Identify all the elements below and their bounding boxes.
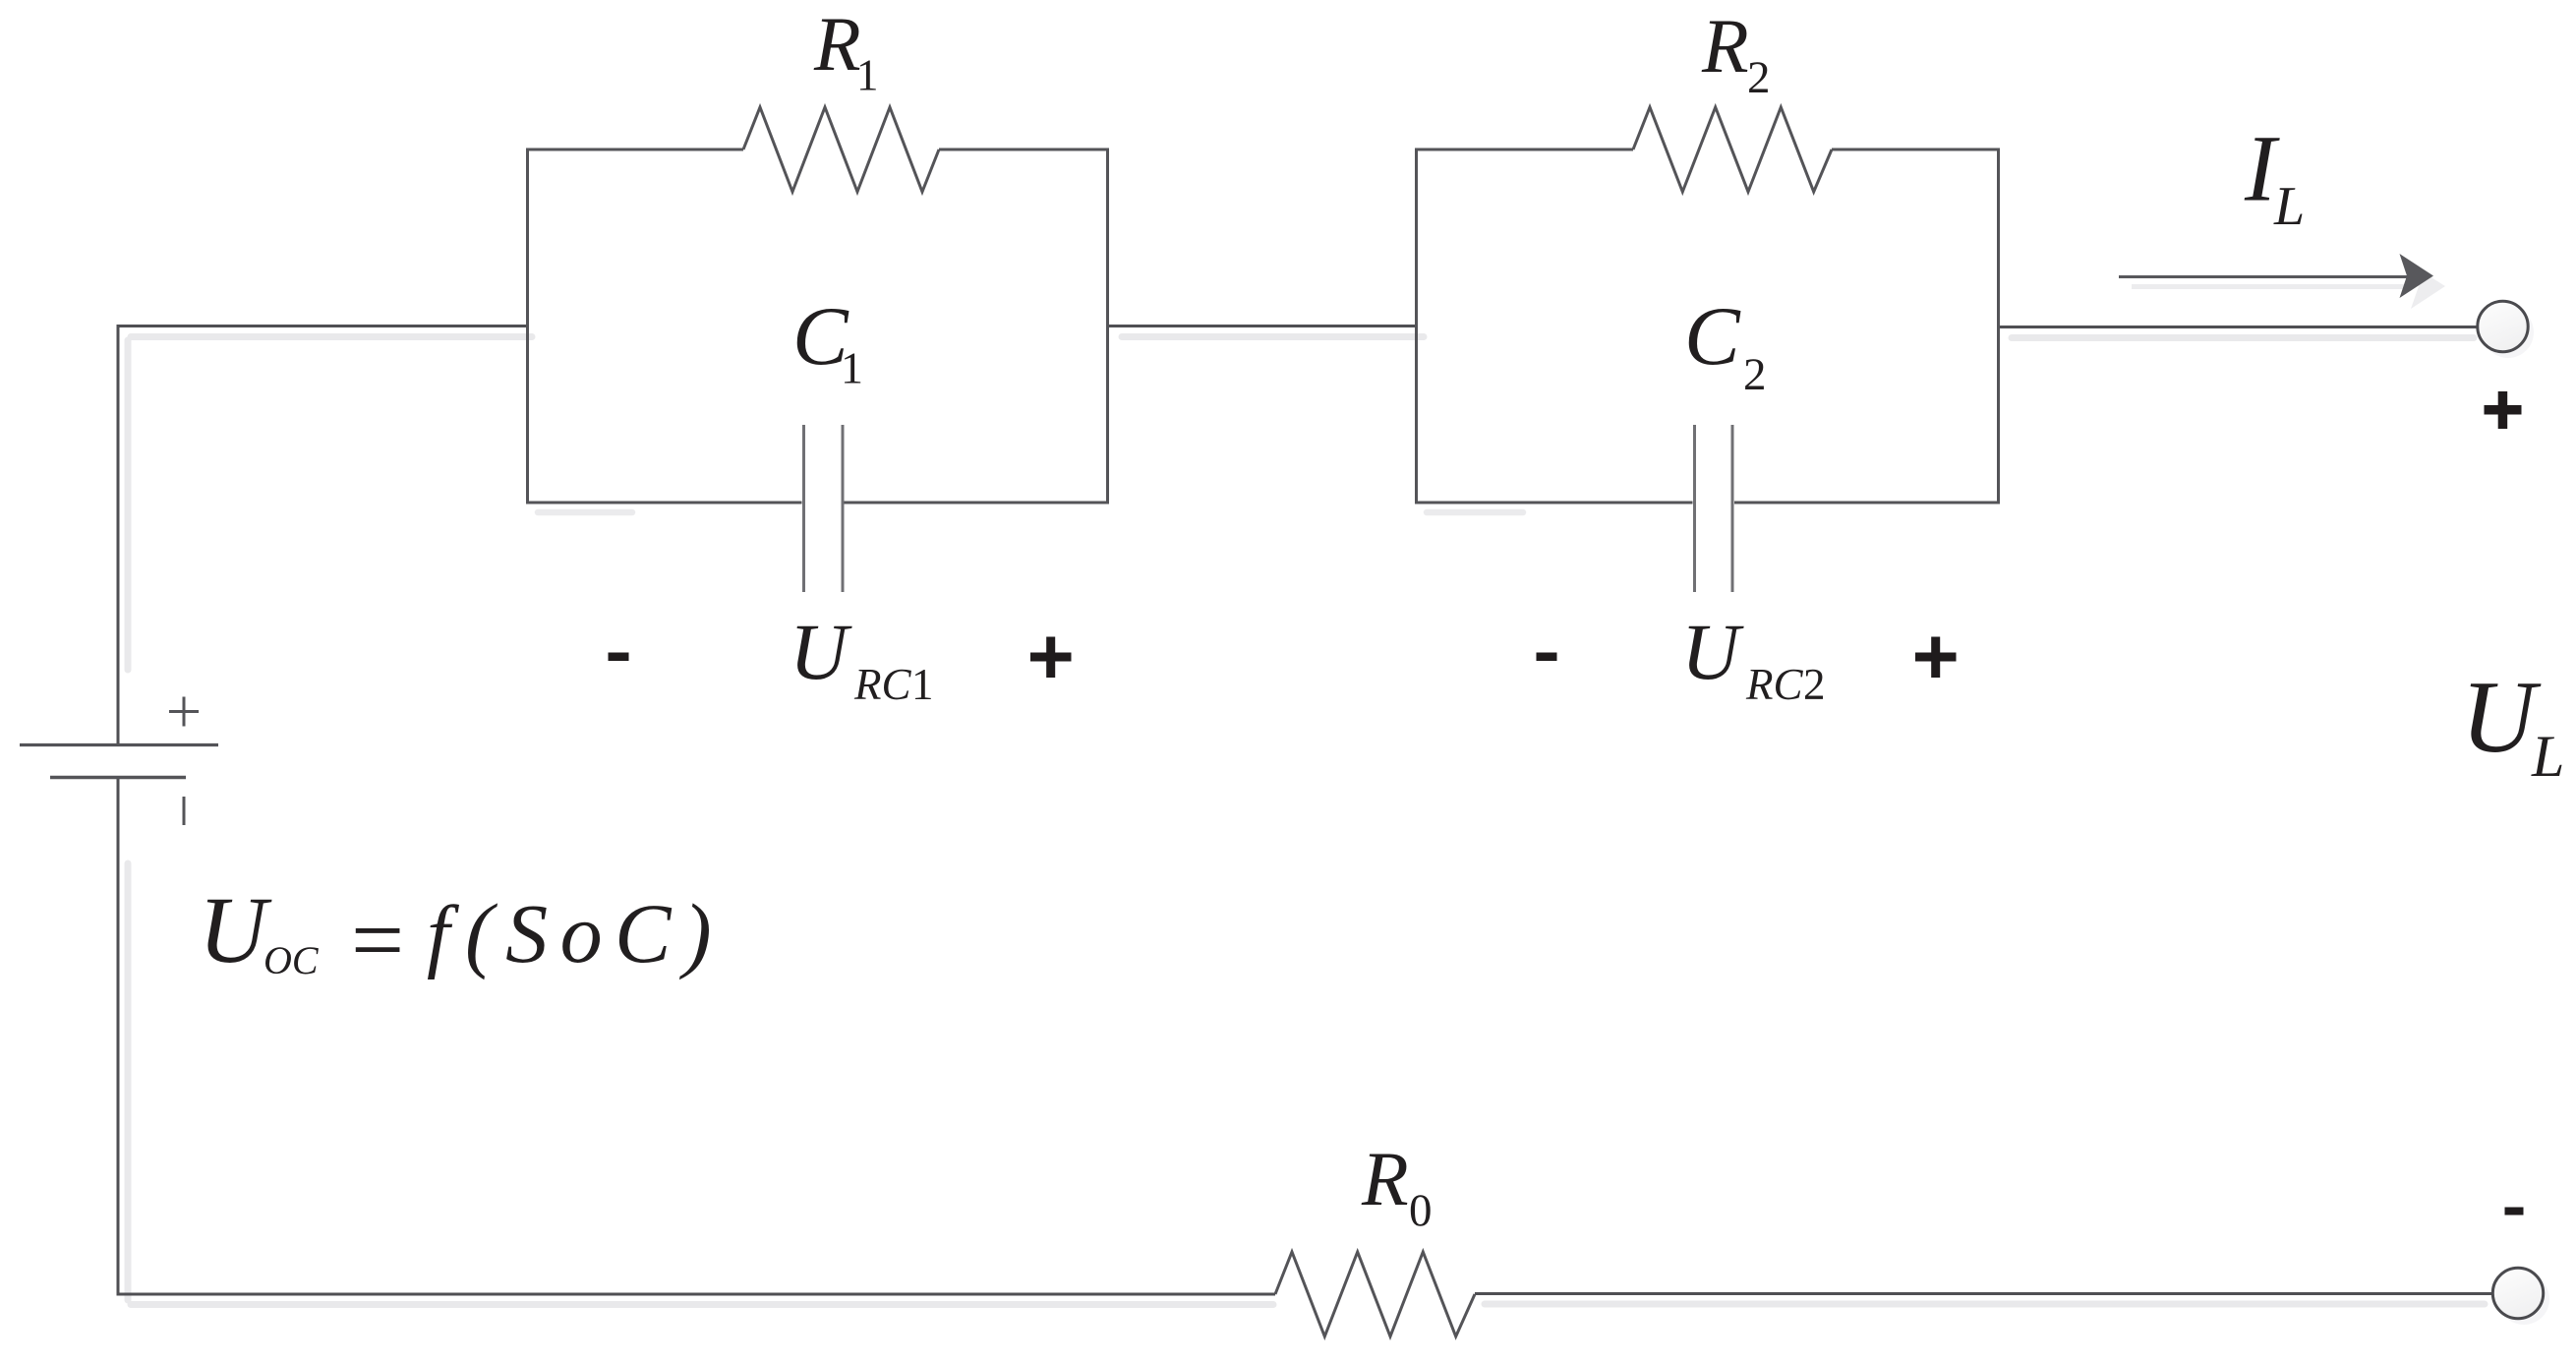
label equation U_OC = f(SoC) bbox=[199, 877, 724, 992]
battery plus mark bbox=[169, 697, 199, 727]
battery minus mark bbox=[183, 797, 186, 825]
svg-text:RC: RC bbox=[1745, 660, 1803, 709]
shadow under box2 bottom edge bbox=[1427, 509, 1523, 516]
svg-text:U: U bbox=[1681, 607, 1744, 696]
svg-text:1: 1 bbox=[841, 343, 863, 393]
svg-text:U: U bbox=[790, 607, 852, 696]
wire shadow right of RC2 bbox=[2012, 334, 2474, 341]
wire bottom right of R0 bbox=[1475, 1292, 2492, 1295]
plus sign at output terminal bbox=[2485, 391, 2522, 429]
plus sign of U_RC2 bbox=[1915, 637, 1957, 679]
svg-text:R: R bbox=[1701, 3, 1749, 89]
terminal + (positive output node) bbox=[2478, 301, 2528, 351]
label R0 bbox=[1361, 1136, 1433, 1236]
svg-text:OC: OC bbox=[263, 938, 320, 982]
capacitor C1 bbox=[804, 425, 844, 592]
svg-text:L: L bbox=[2273, 176, 2305, 237]
svg-text:2: 2 bbox=[1747, 52, 1771, 103]
current arrow I_L bbox=[2119, 254, 2433, 298]
plus sign of U_RC1 bbox=[1030, 637, 1072, 679]
label R2 bbox=[1701, 3, 1771, 103]
svg-text:2: 2 bbox=[1803, 660, 1826, 709]
wire shadow left vertical lower bbox=[125, 863, 132, 1300]
wire left vertical upper (battery + lead) bbox=[117, 325, 120, 746]
shadow under box1 bottom edge bbox=[538, 509, 632, 516]
wire RC2 to positive terminal bbox=[1999, 326, 2479, 328]
minus sign of U_RC1 bbox=[609, 653, 629, 662]
wire shadow left vertical upper bbox=[125, 340, 132, 670]
capacitor C2 bbox=[1695, 425, 1733, 592]
svg-text:1: 1 bbox=[856, 51, 879, 100]
wire RC1 to RC2 bbox=[1108, 325, 1417, 327]
svg-text:U: U bbox=[2461, 659, 2542, 774]
wire shadow top-left segment bbox=[131, 333, 532, 340]
resistor R1 bbox=[743, 107, 939, 192]
minus sign of U_RC2 bbox=[1537, 653, 1557, 662]
label C1 bbox=[792, 290, 863, 393]
wire shadow bottom right of R0 bbox=[1485, 1301, 2485, 1308]
wire shadow bottom left of R0 bbox=[131, 1301, 1273, 1308]
svg-text:RC: RC bbox=[853, 660, 911, 709]
svg-text:L: L bbox=[2531, 724, 2564, 789]
label I_L bbox=[2244, 116, 2305, 238]
svg-text:2: 2 bbox=[1743, 349, 1767, 400]
svg-text:f: f bbox=[427, 889, 460, 980]
wire bottom left of R0 bbox=[117, 1293, 1276, 1296]
svg-text:1: 1 bbox=[911, 660, 934, 709]
minus sign at output terminal bbox=[2505, 1208, 2524, 1216]
label U_L bbox=[2461, 659, 2564, 789]
svg-text:=: = bbox=[351, 887, 404, 992]
shadow of bottom terminal circle bbox=[2498, 1274, 2549, 1325]
label C2 bbox=[1684, 290, 1767, 400]
svg-text:(SoC): (SoC) bbox=[465, 886, 724, 980]
svg-text:U: U bbox=[199, 877, 272, 982]
resistor R2 bbox=[1633, 107, 1832, 192]
shadow of top terminal circle bbox=[2483, 307, 2534, 358]
label U_RC2 bbox=[1681, 607, 1826, 709]
label U_RC1 bbox=[790, 607, 934, 709]
label R1 bbox=[813, 1, 879, 100]
terminal - (negative output node) bbox=[2492, 1268, 2543, 1318]
node loop wires of RC2 box bbox=[1417, 149, 1999, 503]
battery U_OC bbox=[20, 745, 218, 778]
wire shadow between RC groups bbox=[1122, 333, 1424, 340]
svg-text:R: R bbox=[813, 1, 861, 87]
svg-text:C: C bbox=[1684, 290, 1741, 383]
svg-text:0: 0 bbox=[1409, 1185, 1433, 1236]
resistor R0 bbox=[1275, 1252, 1475, 1336]
wire left vertical lower (battery - lead) bbox=[117, 776, 120, 1296]
node loop wires of RC1 box bbox=[528, 149, 1108, 503]
shadow of current arrow bbox=[2132, 265, 2445, 309]
wire battery positive to RC1 box bbox=[117, 325, 528, 327]
svg-text:R: R bbox=[1361, 1136, 1409, 1221]
